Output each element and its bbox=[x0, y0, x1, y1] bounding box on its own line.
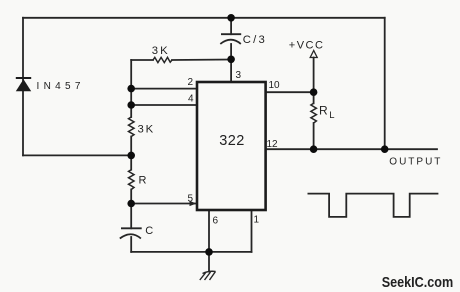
pin 5 signal arrowhead bbox=[190, 201, 197, 206]
svg-text:5: 5 bbox=[188, 194, 194, 205]
svg-text:12: 12 bbox=[267, 139, 279, 150]
wire VCC vertical bbox=[313, 58, 315, 150]
wire pin 1 bbox=[251, 210, 253, 252]
node left feed junction bbox=[127, 152, 135, 160]
svg-text:R: R bbox=[319, 104, 328, 118]
wire pin 6 bbox=[208, 210, 210, 252]
node right/output junction bbox=[381, 145, 389, 153]
resistor R bbox=[129, 170, 147, 190]
wire bottom horizontal bbox=[131, 251, 251, 253]
wire bottom-left horizontal bbox=[23, 154, 131, 156]
node pin 5 junction bbox=[127, 200, 135, 208]
pin 2 label bbox=[188, 77, 194, 88]
power +VCC bbox=[289, 40, 325, 58]
node ground junction bbox=[205, 248, 213, 256]
wire top horizontal bbox=[23, 17, 385, 19]
node at C/3 bottom junction bbox=[227, 56, 235, 64]
svg-text:C: C bbox=[145, 225, 153, 237]
pin 6 label bbox=[213, 216, 219, 227]
wire pin 4 bbox=[131, 104, 197, 106]
svg-text:3: 3 bbox=[236, 70, 242, 81]
waveform output trace bbox=[308, 194, 439, 217]
resistor RL bbox=[311, 103, 335, 123]
svg-text:1: 1 bbox=[254, 215, 260, 226]
node VCC/pin10 junction bbox=[310, 88, 318, 96]
svg-text:10: 10 bbox=[269, 80, 281, 91]
wire ground stem bbox=[208, 252, 210, 272]
diode D1 1N457 bbox=[16, 78, 85, 92]
resistor 3K (top horizontal) bbox=[152, 45, 172, 63]
svg-text:6: 6 bbox=[213, 216, 219, 227]
ground bbox=[200, 271, 216, 280]
pin 5 label bbox=[188, 194, 194, 205]
wire pin 2 bbox=[131, 88, 197, 90]
svg-text:3K: 3K bbox=[152, 45, 170, 57]
svg-text:4: 4 bbox=[188, 94, 194, 105]
svg-text:3K: 3K bbox=[138, 124, 156, 136]
wire right vertical bbox=[384, 18, 386, 149]
svg-text:+VCC: +VCC bbox=[289, 40, 325, 52]
wire 3K horizontal feed bbox=[131, 59, 231, 62]
wire pin 3 bbox=[230, 59, 232, 82]
pin 10 label bbox=[269, 80, 281, 91]
watermark SeekIC.com bbox=[382, 274, 454, 291]
wire pin 5 bbox=[131, 203, 197, 205]
node at top C/3 junction bbox=[227, 14, 235, 22]
svg-text:OUTPUT: OUTPUT bbox=[389, 157, 442, 168]
svg-text:C/3: C/3 bbox=[243, 34, 267, 46]
pin 1 label bbox=[254, 215, 260, 226]
svg-text:2: 2 bbox=[188, 77, 194, 88]
op-amp U1 (322 timer IC) bbox=[197, 82, 266, 210]
node RL/output junction bbox=[310, 145, 318, 153]
wire middle vertical (node column) bbox=[130, 60, 132, 252]
wire left vertical bbox=[22, 18, 24, 156]
node OUTPUT label bbox=[389, 157, 442, 168]
node pin 2 junction bbox=[127, 85, 135, 93]
node pin 4 junction bbox=[127, 101, 135, 109]
wire C/3 vertical bbox=[230, 18, 232, 60]
svg-text:R: R bbox=[139, 175, 147, 187]
pin 3 label bbox=[236, 70, 242, 81]
svg-text:322: 322 bbox=[219, 133, 244, 149]
wire output horizontal bbox=[266, 148, 437, 150]
pin 12 label bbox=[267, 139, 279, 150]
resistor 3K (vertical) bbox=[129, 117, 156, 137]
wire pin 10 bbox=[266, 91, 314, 93]
capacitor C/3 bbox=[220, 34, 267, 46]
pin 4 label bbox=[188, 94, 194, 105]
capacitor C bbox=[120, 225, 154, 239]
svg-text:IN457: IN457 bbox=[37, 81, 85, 92]
svg-text:SeekIC.com: SeekIC.com bbox=[382, 274, 454, 291]
svg-text:L: L bbox=[329, 110, 334, 121]
